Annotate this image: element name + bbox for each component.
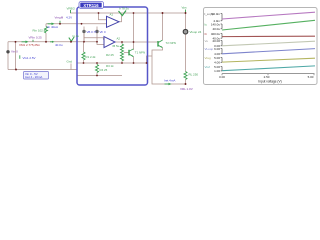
parameter box VG1 sweep [24,72,49,80]
current arrow Iret on loop return [165,83,172,86]
current arrow checkmark Ireg at A1 output [119,11,127,16]
curve Ib maroon [222,35,315,37]
current arrow small at x=52 [50,41,55,43]
svg-text:T2 NPN: T2 NPN [166,41,176,45]
svg-text:Vps: Vps [182,5,188,9]
node pin E rail [146,62,148,64]
node pin tick VREG label [70,10,72,13]
node pin tick VRin [32,40,34,42]
svg-text:40.0u: 40.0u [55,43,63,47]
wire RL bottom stub [185,80,187,85]
svg-text:T1 NPN: T1 NPN [135,51,145,55]
node collector crossing [133,41,135,43]
resistor RL zigzag [184,72,187,80]
wire A1 output up [119,16,122,22]
wire collector vertical x=133.5 [133,13,135,50]
wire A2 minus input [97,42,104,45]
y-axis group 7 Vref [205,65,223,73]
node pin tick Vreg meas [59,21,61,24]
wire pin E jog to emitter return [147,56,153,63]
curve Vref teal [222,66,315,71]
current arrow checkmark at node x=71 [69,37,74,41]
svg-text:Iin 40uA: Iin 40uA [47,25,58,29]
voltmeter arrow at VG1 branch [19,55,21,59]
svg-text:Ib: Ib [205,32,208,36]
node Iin rail pin [59,23,61,25]
wire R1 bottom stub [83,60,85,63]
svg-text:20.0m: 20.0m [212,12,221,16]
wire A2 output to Q1 base [115,41,158,43]
node R3 bottom [121,62,123,64]
wire Q1 emitter to loop return [152,48,186,84]
node input-left [15,41,17,43]
svg-text:VLoop: VLoop [205,47,214,51]
wire voltmeter VF chain x=97 [96,27,98,42]
svg-text:20.00: 20.00 [212,39,220,43]
node pin tick Vps [185,10,187,13]
y-axis group 3 Ib [205,32,223,41]
svg-text:VF 0: VF 0 [100,30,106,34]
wire voltmeter VB chain x=84 [83,27,85,42]
node R1 rail [83,62,85,64]
source VG1 circle [6,50,9,53]
transistor T1 internal NPN [129,49,134,57]
node R4 bottom [96,75,98,77]
wire top rail VREG to Vps node [70,12,186,14]
wire Q1 collector vertical [162,13,164,40]
y-axis group 2 Ic [205,22,223,31]
voltmeter VB circle [82,30,85,33]
junction node dots [15,12,187,85]
node Q1 collector rail [162,12,164,14]
wire internal rail1 y=63 [77,62,147,64]
wire R3 bottom stub [121,61,123,63]
svg-text:Gnd: Gnd [67,60,73,64]
node IRET pin stub near box edge [70,64,72,70]
IC box XTR116 [77,7,148,85]
transistor Q1 external NPN [158,40,163,48]
wire voltmeter branch x=15.5 [15,42,17,70]
node emitter rail [133,62,135,64]
svg-text:VM1 2.775,25m: VM1 2.775,25m [19,43,41,47]
IC label tab XTR116 [79,2,104,9]
wire Vloop top stub [185,13,187,29]
svg-text:140.0u: 140.0u [211,22,221,26]
wire main input rail y=41.5 [8,41,97,43]
node R4 top [96,62,98,64]
wire bottom-left return [8,69,77,71]
svg-text:400.0u: 400.0u [211,32,221,36]
svg-text:R4 25: R4 25 [100,68,108,72]
svg-text:2.50: 2.50 [264,75,270,79]
curve Io plum [222,12,315,19]
svg-text:5.00: 5.00 [308,75,314,79]
y-axis group 1 Io [204,12,222,23]
svg-text:A2: A2 [117,37,121,41]
node Rin bottom [45,41,47,43]
svg-text:RL 250: RL 250 [189,72,199,76]
y-axis group 5 Vloop [205,47,223,56]
resistor R1 zigzag [82,52,85,60]
node bottom return [15,69,17,71]
svg-text:0.00: 0.00 [219,75,225,79]
svg-text:Vloop 24: Vloop 24 [190,30,202,34]
resistor R3 zigzag [121,44,124,61]
resistor R4 zigzag [96,65,99,73]
wire Vloop bottom to RL [185,35,187,72]
svg-text:VRL 1.0V: VRL 1.0V [180,87,193,91]
op-amp A2 [104,37,115,48]
svg-text:R2 25: R2 25 [106,53,114,57]
svg-text:6.00: 6.00 [214,47,220,51]
curve Ic green [222,20,315,30]
curve Vreg olive [222,58,315,62]
wire R4 top stub [96,63,98,65]
svg-text:VB 0.77: VB 0.77 [87,30,98,34]
wire Rin bottom stub [45,33,47,42]
op-amp A1 [107,16,120,27]
svg-text:Ir 78.5u: Ir 78.5u [119,7,129,11]
y-axis group 6 Vreg [205,56,223,65]
wire A1 plus input from rail [99,13,107,20]
svg-text:IB 5u: IB 5u [113,44,120,48]
node Vps [185,12,187,14]
svg-text:XTR116: XTR116 [83,3,99,8]
wire R1 top stub [83,42,85,52]
curve Ve sage [222,41,315,46]
svg-text:Iret 4mA: Iret 4mA [164,79,175,83]
svg-text:Ve: Ve [205,39,209,43]
x axis [219,74,314,84]
svg-text:VREG: VREG [67,7,76,11]
svg-text:R1 2.4k: R1 2.4k [86,55,97,59]
node IIN pin [81,23,83,25]
node collector rail [133,12,135,14]
wire internal rail2 y=75.5 [77,75,122,77]
svg-text:40.0u: 40.0u [212,27,220,31]
svg-text:Iq 4u: Iq 4u [73,34,80,38]
node R3 top [121,41,123,43]
source Vloop circle [183,29,188,34]
plot panel border [204,8,318,85]
svg-text:Rin 102.4k: Rin 102.4k [33,29,48,33]
svg-text:VregM: VregM [55,16,64,20]
svg-text:Input voltage (V): Input voltage (V) [258,79,281,83]
wire A2 plus input jog [84,34,104,42]
svg-text:1.00: 1.00 [214,69,220,73]
wire left vertical VG1 branch [7,42,9,70]
node checkmark [70,41,72,43]
current arrow Iin on IIN rail [48,23,55,26]
svg-text:VG1 2.5V: VG1 2.5V [23,56,36,60]
svg-text:Iout 4 - 20mA: Iout 4 - 20mA [25,75,42,79]
wire R4 bottom stub [96,73,98,76]
wire T1 base [124,52,129,54]
node VF rail [96,41,98,43]
y-axis group 4 Ve [205,39,223,48]
node A1 plus rail [98,12,100,14]
wire R3 top stub [121,42,123,44]
svg-text:Vreg: Vreg [205,56,212,60]
curve Vloop blue [222,49,315,54]
wire Rin top stub [45,24,47,27]
wire IIN input rail [46,23,107,25]
svg-text:5.00: 5.00 [214,56,220,60]
svg-text:Vref: Vref [205,65,211,69]
voltmeter VF circle [95,30,98,33]
svg-text:Vin 0: Vin 0 [11,50,18,54]
current arrow IRin on input rail [22,41,29,44]
wire T1 emitter down [133,57,135,63]
resistor Rin zigzag [45,27,48,34]
svg-text:VRin 0.25: VRin 0.25 [29,36,43,40]
svg-text:A1: A1 [110,13,114,17]
node RL bottom [185,83,187,85]
svg-text:4.2V: 4.2V [66,16,72,20]
node VB bottom [83,41,85,43]
